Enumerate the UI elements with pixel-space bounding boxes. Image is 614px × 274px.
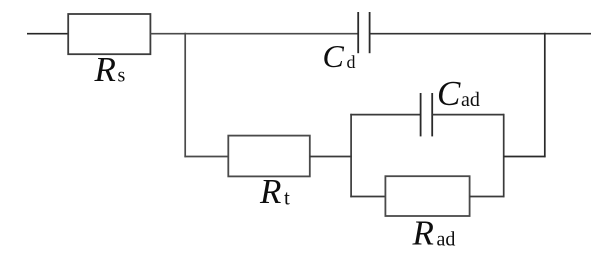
wire: junction node A vertical drop: [184, 33, 186, 158]
svg-text:R: R: [94, 50, 116, 89]
resistor R2 (Rt): [228, 136, 309, 177]
svg-text:C: C: [437, 74, 461, 113]
wire: Rt to parallel block: [310, 156, 352, 158]
wire: parallel block right vertical: [503, 114, 505, 198]
svg-text:R: R: [412, 213, 434, 252]
label Cad: [437, 74, 480, 113]
wire: node A to Rt: [184, 156, 228, 158]
resistor R1 (Rs): [68, 14, 150, 54]
svg-text:C: C: [323, 38, 345, 74]
capacitor C2 (Cad) left plate: [420, 93, 422, 136]
wire: parallel block left vertical: [350, 114, 352, 198]
capacitor C2 (Cad) right plate: [431, 93, 433, 136]
label Cd: [323, 38, 356, 74]
capacitor C1 (Cd) left plate: [357, 12, 359, 53]
svg-text:R: R: [259, 172, 281, 211]
svg-text:d: d: [347, 52, 356, 72]
wire: main right vertical: [544, 33, 546, 158]
wire: Rad to parallel block right vertical: [470, 196, 505, 198]
svg-text:t: t: [284, 185, 290, 209]
wire: left lead: [27, 33, 68, 35]
resistor R3 (Rad): [385, 176, 469, 216]
wire: Cd to right vertical and right lead: [370, 33, 591, 35]
wire: Rs to Cd plate: [150, 33, 358, 35]
wire: top branch left to Cad: [350, 114, 420, 116]
wire: Cad to parallel block right vertical: [432, 114, 504, 116]
label Rt: [259, 172, 290, 211]
svg-text:s: s: [118, 65, 126, 87]
label Rs: [94, 50, 126, 89]
wire: bottom branch left to Rad: [350, 196, 385, 198]
svg-text:ad: ad: [461, 89, 480, 111]
capacitor C1 (Cd) right plate: [369, 12, 371, 53]
wire: parallel block to main right vertical: [504, 156, 546, 158]
svg-text:ad: ad: [437, 229, 456, 251]
label Rad: [412, 213, 456, 252]
